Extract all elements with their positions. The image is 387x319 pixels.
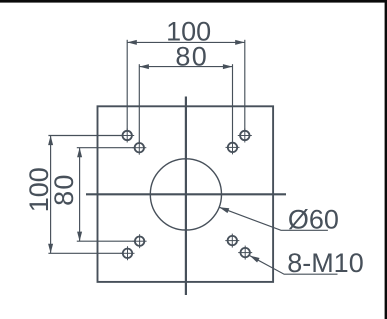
top dim 80 extension line right [232,64,234,143]
leader D60 line [219,207,328,230]
hole bottom-left 80 [133,234,147,248]
svg-text:80: 80 [49,173,79,206]
leader 8-M10 arrowhead [250,256,260,263]
vertical centerline [185,97,187,296]
left dim 100 extension line top [48,135,123,137]
horizontal centerline [86,193,286,195]
leader 8-M10 line [250,256,338,275]
hole top-right 100 [238,129,252,143]
left dim 80 arrow bottom [77,232,82,242]
right border line [385,0,387,319]
top border bar [0,0,387,3]
center hole circle D60 [150,159,221,230]
svg-text:8-M10: 8-M10 [287,248,364,278]
top dim 100 extension line left [126,40,128,131]
left dim 80 dimension line [79,148,81,242]
svg-text:80: 80 [175,42,208,72]
hole bottom-left 100 [121,246,135,260]
left dim 100 dimension line [50,136,52,254]
top dim 80 arrow right [223,64,233,69]
top dim 80 dimension line [139,66,232,68]
top dim 100 arrow left [127,40,137,45]
hole bottom-right 80 [225,234,239,248]
left dim 100 arrow bottom [48,244,53,254]
top dim 80 arrow left [139,64,149,69]
left dim 80 extension line bottom [77,240,135,242]
left dim 100 extension line bottom [48,252,123,254]
hole top-left 80 [132,141,146,155]
plate outline square [98,106,274,282]
svg-text:Ø60: Ø60 [288,204,339,234]
top dim 100 extension line right [244,40,246,131]
hole top-right 80 [226,140,240,154]
left dim 80 arrow top [77,148,82,158]
hole bottom-right 100 [238,246,252,260]
top dim 100 arrow right [235,40,245,45]
top dim 80 extension line left [138,64,140,143]
hole top-left 100 [120,129,134,143]
left dim 100 arrow top [48,136,53,146]
left dim 80 extension line top [77,147,135,149]
top dim 100 dimension line [127,41,245,43]
leader D60 arrowhead [219,207,229,213]
